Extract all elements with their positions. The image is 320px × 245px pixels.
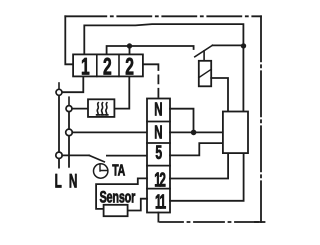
svg-text:N: N — [69, 172, 78, 192]
svg-text:5: 5 — [155, 143, 162, 163]
enclosure border corner tail — [255, 221, 265, 223]
wire: L line tail — [58, 159, 60, 168]
relay coil K1 diagonal — [199, 69, 211, 77]
wire: top rail from terminal 1 up, across, down to unit box — [84, 24, 243, 111]
node L2 circle — [56, 152, 62, 158]
node B junction dot above terminal 2b — [127, 43, 132, 48]
switch TA blade — [89, 155, 104, 161]
node A junction dot on right rail — [241, 43, 246, 48]
node L1 circle — [56, 89, 62, 95]
svg-text:2: 2 — [159, 169, 166, 191]
wire: terminal N(top) to node C — [170, 109, 194, 133]
wire: L line down — [58, 95, 60, 152]
svg-text:1: 1 — [81, 53, 90, 80]
unit box U1 (motor/actuator) — [223, 112, 248, 154]
enclosure chain border right — [260, 16, 262, 222]
svg-text:Sensor: Sensor — [99, 188, 135, 207]
svg-text:2: 2 — [103, 53, 112, 80]
node N2 circle — [66, 129, 73, 136]
terminal block TB outer box — [147, 99, 170, 213]
wire: terminal 11 to sensor right — [128, 199, 147, 211]
svg-text:1: 1 — [159, 191, 166, 213]
terminal block dividers — [147, 122, 170, 189]
wire: terminal 12 to sensor left — [96, 178, 147, 209]
sensor R1 resistor box — [104, 205, 128, 216]
wire: terminal 5 to unit box — [170, 143, 223, 155]
svg-text:L: L — [55, 172, 62, 192]
wire: terminal 1 bottom to L node — [62, 76, 83, 92]
node N1 circle — [66, 106, 72, 112]
heater E1 wavy element symbol — [97, 103, 108, 115]
svg-text:N: N — [154, 123, 162, 143]
terminal row T1 (1 2 2) outer box — [73, 54, 143, 76]
wire: terminal N(lower) to unit box — [170, 131, 223, 133]
enclosure chain border (dash-dot) top — [65, 15, 106, 17]
wire: L2 node to thermostat switch — [62, 154, 89, 156]
wire: terminal 2a top tap across to switch contact — [107, 46, 194, 54]
relay coil K1 box — [199, 61, 211, 87]
wire: node B down to terminal 2b — [129, 46, 131, 54]
stub above L node — [58, 83, 60, 89]
wire: heater to terminal 2b bottom — [114, 76, 129, 108]
wire: left feed from border corner down to terminal row 1 — [65, 16, 73, 64]
wire: N line down — [68, 112, 70, 129]
wire: terminal block bottom stub to border — [157, 213, 159, 222]
wire: terminal 12 to unit box bottom — [170, 153, 228, 178]
wire: row right to dashed link — [143, 64, 159, 70]
wire: coil K1 to unit box top — [211, 78, 228, 112]
heater E1 box — [88, 99, 114, 117]
stub above N node — [68, 97, 70, 105]
node C junction dot — [191, 130, 197, 136]
mechanical link switch-coil — [203, 51, 205, 61]
wire: dashed link down to terminal block N — [157, 70, 159, 99]
switch S1 blade (relay contact) — [195, 45, 213, 57]
svg-text:N: N — [154, 100, 162, 120]
wire: N line tail — [68, 136, 70, 167]
svg-text:TA: TA — [112, 162, 125, 180]
wire: TA contact to terminal 5 — [107, 155, 147, 157]
wire: N node to heater — [72, 108, 88, 110]
clock symbol (timer) — [94, 164, 108, 178]
terminal row divider 2|2 — [118, 54, 120, 76]
wire: N2 node to terminal N (lower) — [72, 131, 147, 133]
wire: terminal 11 to unit box bottom — [170, 153, 244, 201]
terminal row divider 1|2 — [96, 54, 98, 76]
enclosure chain border bottom — [160, 221, 261, 223]
svg-text:2: 2 — [125, 53, 134, 80]
wire: switch S1 output to node A — [213, 44, 244, 46]
